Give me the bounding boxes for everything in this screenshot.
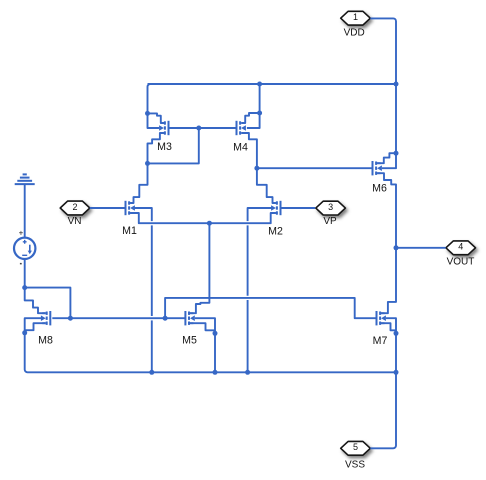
transistor M3 <box>159 121 168 135</box>
node M6 source tap <box>394 151 399 156</box>
node M4 drain / M2 drain / M6 gate <box>254 166 259 171</box>
wire M1 bulk down seg3 <box>151 320 153 372</box>
port VN (2) <box>60 201 90 215</box>
wire M8 source <box>25 323 46 330</box>
svg-text:3: 3 <box>328 202 333 212</box>
svg-text:+: + <box>19 228 24 237</box>
svg-text:M4: M4 <box>233 141 248 153</box>
wire M2 bulk down seg1 <box>248 208 273 221</box>
svg-text:M8: M8 <box>38 334 53 346</box>
node M3 drain tie <box>145 161 150 166</box>
svg-text:M1: M1 <box>122 225 137 237</box>
wire M1 source to tail <box>130 213 209 223</box>
wire M2 gate to VP <box>281 207 316 209</box>
svg-text:M7: M7 <box>373 335 388 347</box>
node rail M7 / VSS <box>394 370 399 375</box>
node VOUT <box>394 245 399 250</box>
wire source to bias node <box>24 259 26 288</box>
node rail M1 bulk <box>149 370 154 375</box>
svg-text:5: 5 <box>353 442 358 452</box>
svg-text:M2: M2 <box>268 226 283 238</box>
svg-text:VDD: VDD <box>344 27 365 38</box>
wire M6 drain to VOUT node <box>377 173 396 248</box>
svg-text:M6: M6 <box>372 182 387 194</box>
wire VN to M1 gate <box>90 207 126 209</box>
wire ground to source <box>24 184 26 238</box>
wire M3 bulk <box>148 113 160 128</box>
node rail M4 tap <box>257 82 262 87</box>
svg-text:4: 4 <box>458 242 463 252</box>
node M8 source join <box>22 330 27 335</box>
port VP (3) <box>316 201 346 215</box>
wire M3 drain down to M1 drain <box>130 163 147 203</box>
node M7 source join <box>394 331 399 336</box>
node VDD rail <box>394 82 399 87</box>
wire M3 source <box>148 113 165 123</box>
svg-text:M3: M3 <box>157 141 172 153</box>
wire M7 source <box>381 323 396 330</box>
wire M5 gate <box>165 317 185 319</box>
node gate tie M3 M4 <box>196 126 201 131</box>
svg-text:VP: VP <box>323 216 337 227</box>
node M4 source tap <box>257 111 262 116</box>
wire M4 drain node to M6 gate <box>257 167 373 169</box>
node M3 source tap <box>145 111 150 116</box>
wire rail down to M4 tap <box>259 84 261 113</box>
wire M7 down to rail <box>395 333 397 372</box>
wire M8 bulk <box>25 318 41 333</box>
port VSS (5) <box>341 441 371 455</box>
wire M3 drain jog <box>148 133 165 163</box>
wire M8 down to VSS rail <box>25 333 396 373</box>
wire M7 bulk <box>386 318 396 333</box>
ground <box>15 174 35 184</box>
transistor M1 <box>126 201 135 215</box>
svg-text:VOUT: VOUT <box>447 257 475 268</box>
node rail M5 <box>213 370 218 375</box>
wire rail corner down to M3 tap <box>148 84 151 113</box>
wire M2 bulk down seg2 <box>247 225 249 295</box>
wire VDD top rail <box>148 83 397 85</box>
wire bias node to M8 gate node <box>25 288 71 319</box>
current source I1 <box>14 228 35 264</box>
transistor M7 <box>377 311 386 325</box>
wire VOUT node down to M7 drain <box>381 248 396 313</box>
node rail M2 bulk <box>245 370 250 375</box>
node M5 source join <box>213 331 218 336</box>
node tail of diff pair <box>207 221 212 226</box>
svg-text:VN: VN <box>68 216 82 227</box>
wire M5 bulk <box>195 318 215 333</box>
port VOUT (4) <box>446 241 476 255</box>
port VDD (1) <box>341 11 371 25</box>
wire M4 bulk <box>247 113 260 128</box>
wire M3 gate to M4 gate <box>169 127 237 129</box>
svg-text:2: 2 <box>72 202 77 212</box>
transistor M8 <box>41 311 50 325</box>
wire VDD port to corner <box>370 18 396 84</box>
wire M4 drain node to M2 drain <box>257 168 276 203</box>
transistor M6 <box>373 161 382 175</box>
wire M6 bulk <box>382 153 396 168</box>
transistor M5 <box>185 311 194 325</box>
wire M4 source <box>242 113 260 123</box>
wire VOUT node to port <box>396 247 446 249</box>
wire M6 source <box>377 153 396 163</box>
wire tail down to M5 drain <box>190 223 209 313</box>
node bias top <box>22 285 27 290</box>
wire rail to VSS port <box>370 372 396 448</box>
svg-text:M5: M5 <box>182 335 197 347</box>
svg-text:VSS: VSS <box>345 459 365 470</box>
wire M5 down to rail <box>214 333 216 372</box>
wire M1 bulk down seg1 <box>134 208 152 221</box>
wire M2 source to tail <box>209 213 276 223</box>
wire M4 drain down <box>242 133 257 168</box>
node M5 gate <box>163 316 168 321</box>
wire M2 bulk down seg3 <box>247 300 249 372</box>
wire bias to M7 gate <box>165 298 376 318</box>
wire VDD vertical to M6 tap <box>395 84 397 153</box>
wire M5 source <box>190 323 215 330</box>
transistor M2 <box>271 201 280 215</box>
svg-text:1: 1 <box>353 12 358 22</box>
transistor M4 <box>237 121 246 135</box>
wire bias M8-M5 gate line <box>52 317 165 319</box>
node M8 gate <box>68 316 73 321</box>
wire M1 bulk down seg2 <box>151 225 153 316</box>
wire M3 gate-drain tie vertical <box>148 128 199 163</box>
wire M8 drain <box>25 288 46 314</box>
